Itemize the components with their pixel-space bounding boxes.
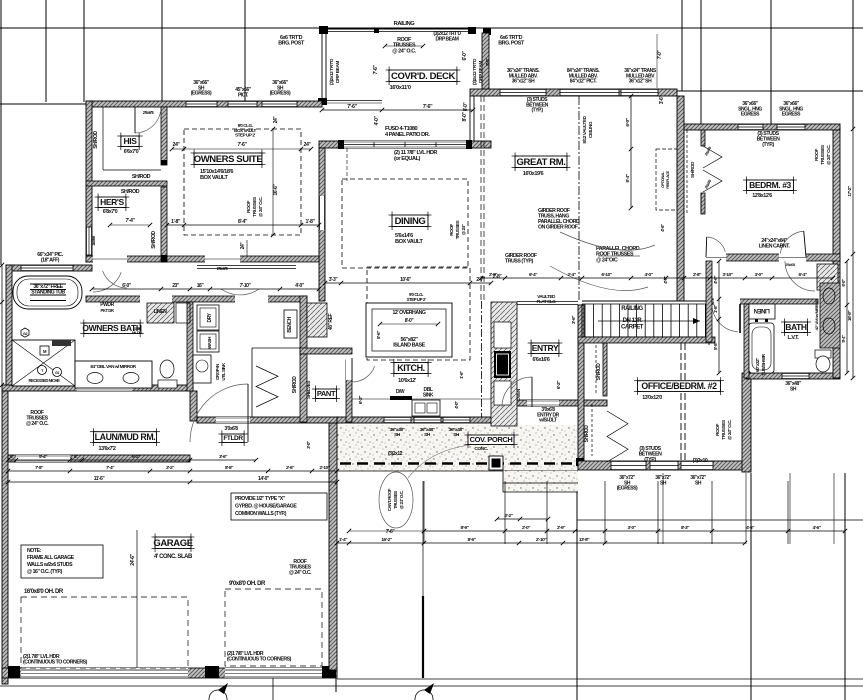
svg-text:4'-0": 4'-0" bbox=[644, 272, 652, 278]
svg-text:(EGRESS): (EGRESS) bbox=[270, 91, 291, 97]
svg-text:(3)2x12 TRT'D: (3)2x12 TRT'D bbox=[329, 58, 335, 85]
svg-text:DN 13R: DN 13R bbox=[623, 318, 643, 324]
svg-text:RECESSED NICHE: RECESSED NICHE bbox=[29, 378, 61, 383]
svg-text:2'6x6'8: 2'6x6'8 bbox=[143, 110, 155, 115]
svg-text:NOTE:: NOTE: bbox=[27, 548, 42, 554]
svg-text:6'-0": 6'-0" bbox=[122, 283, 132, 289]
svg-text:DRP BEAM: DRP BEAM bbox=[436, 36, 459, 42]
svg-text:PROVIDE 1/2" TYPE "X": PROVIDE 1/2" TYPE "X" bbox=[235, 496, 286, 502]
svg-text:SH: SH bbox=[394, 432, 401, 438]
svg-text:SH/ROD: SH/ROD bbox=[292, 376, 298, 394]
svg-text:5'-6": 5'-6" bbox=[376, 331, 382, 339]
svg-text:(or EQUAL): (or EQUAL) bbox=[394, 156, 421, 162]
svg-text:SH/ROD: SH/ROD bbox=[690, 161, 696, 178]
svg-text:SH: SH bbox=[424, 432, 431, 438]
svg-text:6'-2": 6'-2" bbox=[132, 454, 140, 460]
svg-text:2'-8": 2'-8" bbox=[489, 272, 497, 278]
svg-text:8'-0": 8'-0" bbox=[405, 318, 415, 324]
svg-text:DRP BEAM: DRP BEAM bbox=[478, 61, 484, 83]
svg-text:BRG. POST: BRG. POST bbox=[498, 41, 525, 47]
svg-text:@ 24" O.C.: @ 24" O.C. bbox=[826, 145, 832, 165]
svg-text:BRG. POST: BRG. POST bbox=[278, 41, 305, 47]
svg-text:(TYP.): (TYP.) bbox=[762, 142, 774, 148]
svg-text:TRUSSES: TRUSSES bbox=[721, 419, 727, 440]
svg-text:1'-4": 1'-4" bbox=[339, 537, 347, 543]
svg-text:4'-0": 4'-0" bbox=[374, 116, 380, 126]
svg-text:@ 24": @ 24" bbox=[461, 224, 466, 235]
svg-text:ROOF: ROOF bbox=[715, 423, 721, 436]
svg-text:4'-6": 4'-6" bbox=[713, 276, 719, 284]
svg-text:SH/ROD: SH/ROD bbox=[132, 174, 151, 180]
svg-text:6": 6" bbox=[74, 454, 78, 460]
svg-text:WALLS w/2x6 STUDS: WALLS w/2x6 STUDS bbox=[27, 562, 73, 568]
svg-text:PKT DR: PKT DR bbox=[101, 308, 114, 313]
svg-text:TRUSSES: TRUSSES bbox=[252, 196, 258, 217]
svg-text:D/W: D/W bbox=[396, 389, 405, 395]
svg-text:24": 24" bbox=[273, 116, 279, 124]
svg-text:@ 24" O.C.: @ 24" O.C. bbox=[392, 48, 416, 54]
svg-text:6'-10": 6'-10" bbox=[601, 272, 611, 278]
svg-text:GREAT RM.: GREAT RM. bbox=[517, 157, 566, 168]
svg-text:ENTRY: ENTRY bbox=[532, 343, 559, 353]
svg-text:42" VAN w/ MIRROR: 42" VAN w/ MIRROR bbox=[814, 299, 819, 330]
svg-text:2'-9": 2'-9" bbox=[557, 525, 565, 531]
svg-text:PICT.: PICT. bbox=[238, 92, 249, 98]
svg-text:3'0x6'8: 3'0x6'8 bbox=[224, 426, 238, 432]
svg-text:(CONTINUOUS TO CORNERS): (CONTINUOUS TO CORNERS) bbox=[227, 656, 292, 662]
svg-text:(18"AFF): (18"AFF) bbox=[41, 257, 60, 263]
svg-text:LINEN: LINEN bbox=[754, 307, 770, 313]
svg-text:4'-0": 4'-0" bbox=[663, 276, 668, 284]
svg-text:16'0x11'0: 16'0x11'0 bbox=[390, 85, 411, 91]
svg-text:@ 16" O.C. (TYP.): @ 16" O.C. (TYP.) bbox=[27, 569, 63, 575]
svg-text:4'-0": 4'-0" bbox=[295, 283, 305, 289]
svg-text:FTLDR: FTLDR bbox=[223, 435, 243, 442]
svg-text:6": 6" bbox=[10, 454, 14, 460]
svg-text:STEP UP 2': STEP UP 2' bbox=[407, 297, 426, 302]
svg-text:10'6x12': 10'6x12' bbox=[398, 378, 417, 384]
svg-text:OPTIONAL: OPTIONAL bbox=[661, 171, 665, 188]
svg-text:8/12 VAULTED: 8/12 VAULTED bbox=[582, 115, 588, 143]
svg-text:SH/ROD: SH/ROD bbox=[596, 363, 602, 381]
svg-text:8'-3": 8'-3" bbox=[681, 525, 689, 531]
svg-text:PANT: PANT bbox=[317, 389, 336, 398]
svg-text:GYP.BD. @ HOUSE/GARAGE: GYP.BD. @ HOUSE/GARAGE bbox=[235, 504, 297, 510]
svg-text:2'-8": 2'-8" bbox=[693, 272, 701, 278]
svg-text:TRUSSES: TRUSSES bbox=[455, 220, 460, 239]
svg-text:(3)2x10: (3)2x10 bbox=[693, 458, 708, 464]
svg-text:7'-8": 7'-8" bbox=[35, 465, 43, 471]
svg-text:3'-0": 3'-0" bbox=[627, 525, 635, 531]
svg-text:5'-4": 5'-4" bbox=[39, 454, 47, 460]
svg-text:8'-9": 8'-9" bbox=[460, 525, 468, 531]
svg-text:24": 24" bbox=[304, 142, 312, 148]
svg-text:6'-0": 6'-0" bbox=[625, 118, 631, 126]
svg-text:8'-6": 8'-6" bbox=[467, 537, 475, 543]
svg-text:RAILING: RAILING bbox=[621, 306, 643, 312]
svg-text:COVR'D. DECK: COVR'D. DECK bbox=[391, 71, 456, 82]
svg-text:8'-0": 8'-0" bbox=[485, 58, 490, 66]
svg-text:6'-2": 6'-2" bbox=[358, 396, 364, 404]
svg-text:MLDG: MLDG bbox=[132, 330, 142, 335]
svg-text:1'-6": 1'-6" bbox=[459, 371, 464, 379]
svg-text:5'-0": 5'-0" bbox=[0, 279, 2, 287]
svg-text:6'6x7'0: 6'6x7'0 bbox=[124, 149, 139, 155]
svg-text:DROP-IN: DROP-IN bbox=[215, 364, 220, 380]
svg-text:HIS: HIS bbox=[124, 136, 138, 146]
svg-text:2'6x6'8: 2'6x6'8 bbox=[785, 263, 795, 267]
svg-text:RAILING: RAILING bbox=[394, 21, 416, 27]
svg-text:CEILING: CEILING bbox=[588, 121, 594, 138]
svg-text:4 PANEL PATIO DR.: 4 PANEL PATIO DR. bbox=[385, 132, 430, 138]
svg-text:2'-6": 2'-6" bbox=[286, 465, 294, 471]
svg-text:3'-0": 3'-0" bbox=[306, 441, 311, 449]
svg-text:4'-6": 4'-6" bbox=[746, 525, 754, 531]
svg-text:8'-0": 8'-0" bbox=[462, 112, 468, 122]
svg-text:9'-4": 9'-4" bbox=[841, 335, 846, 343]
svg-text:SH: SH bbox=[695, 480, 702, 486]
svg-text:SH/ROD: SH/ROD bbox=[584, 425, 590, 443]
svg-text:2'-0": 2'-0" bbox=[522, 525, 530, 531]
svg-text:4'-6": 4'-6" bbox=[812, 525, 820, 531]
svg-text:6'-4": 6'-4" bbox=[798, 272, 806, 278]
svg-text:@ 24" O.C.: @ 24" O.C. bbox=[399, 490, 404, 509]
svg-text:16x68: 16x68 bbox=[91, 235, 96, 246]
svg-text:(TYP.): (TYP.) bbox=[644, 457, 656, 463]
svg-text:SH/ROD: SH/ROD bbox=[121, 189, 140, 195]
svg-text:11'-2": 11'-2" bbox=[0, 338, 2, 348]
svg-text:SH: SH bbox=[453, 432, 460, 438]
svg-text:FIREPLACE: FIREPLACE bbox=[666, 170, 670, 188]
svg-text:5'-8": 5'-8" bbox=[713, 342, 719, 350]
svg-text:G2: G2 bbox=[23, 332, 28, 336]
svg-text:23": 23" bbox=[172, 283, 180, 289]
svg-text:WASH: WASH bbox=[207, 336, 212, 349]
svg-text:UTIL SINK: UTIL SINK bbox=[221, 362, 226, 381]
svg-text:TRUSSES: TRUSSES bbox=[820, 144, 826, 165]
svg-text:8'-0": 8'-0" bbox=[463, 102, 469, 112]
svg-text:CARPET: CARPET bbox=[621, 324, 644, 330]
svg-text:w/SI-DLT: w/SI-DLT bbox=[538, 418, 557, 424]
svg-text:FLAT CLG: FLAT CLG bbox=[537, 299, 557, 304]
svg-text:6'-0": 6'-0" bbox=[841, 279, 846, 287]
svg-text:ROOF: ROOF bbox=[814, 148, 820, 161]
svg-text:(EGRESS): (EGRESS) bbox=[617, 486, 638, 492]
svg-text:@ 24" O.C.: @ 24" O.C. bbox=[258, 197, 264, 217]
svg-text:L.V.T.: L.V.T. bbox=[788, 335, 800, 341]
svg-text:6'-4": 6'-4" bbox=[529, 272, 537, 278]
svg-text:BOX VAULT: BOX VAULT bbox=[200, 175, 228, 181]
svg-text:3'-6": 3'-6" bbox=[571, 316, 577, 324]
svg-text:@ 24" O.C.: @ 24" O.C. bbox=[289, 570, 312, 576]
svg-text:2'-10": 2'-10" bbox=[319, 465, 329, 471]
svg-text:ON GIRDER ROOF: ON GIRDER ROOF bbox=[538, 224, 578, 230]
svg-text:ROOF: ROOF bbox=[246, 200, 252, 213]
svg-text:3'-3": 3'-3" bbox=[329, 277, 339, 283]
svg-text:4'-6": 4'-6" bbox=[660, 224, 665, 232]
svg-text:13'6x7'2: 13'6x7'2 bbox=[99, 446, 116, 452]
svg-text:6'-2": 6'-2" bbox=[556, 381, 562, 389]
svg-text:@ 24" O.C.: @ 24" O.C. bbox=[26, 421, 49, 427]
svg-text:36"x12" SH: 36"x12" SH bbox=[629, 79, 652, 85]
svg-text:CANT. ROOF: CANT. ROOF bbox=[387, 488, 392, 511]
svg-text:8'-8": 8'-8" bbox=[225, 465, 233, 471]
svg-text:60"x32": 60"x32" bbox=[755, 358, 760, 372]
svg-text:OWNERS SUITE: OWNERS SUITE bbox=[194, 154, 263, 165]
svg-text:24": 24" bbox=[240, 242, 246, 250]
svg-text:7'-0": 7'-0" bbox=[657, 50, 663, 60]
svg-text:16'0x19'6: 16'0x19'6 bbox=[523, 171, 544, 177]
svg-text:G1: G1 bbox=[55, 371, 59, 375]
svg-text:7'-6": 7'-6" bbox=[347, 104, 357, 110]
svg-text:3'-6": 3'-6" bbox=[219, 454, 227, 460]
svg-text:3'-6": 3'-6" bbox=[659, 95, 665, 105]
svg-text:BATH: BATH bbox=[785, 322, 807, 332]
svg-text:OVEN: OVEN bbox=[516, 388, 522, 401]
svg-text:8'-4": 8'-4" bbox=[238, 219, 248, 225]
svg-text:@ 24" O.C.: @ 24" O.C. bbox=[727, 420, 733, 440]
svg-text:(3)2x12 TRT'D: (3)2x12 TRT'D bbox=[472, 58, 478, 85]
svg-text:24'-6": 24'-6" bbox=[130, 553, 136, 565]
svg-text:(EGRESS): (EGRESS) bbox=[191, 91, 212, 97]
svg-text:48" REF: 48" REF bbox=[328, 314, 334, 331]
svg-text:(TYP.): (TYP.) bbox=[531, 108, 543, 114]
svg-text:3'-0": 3'-0" bbox=[754, 272, 762, 278]
svg-text:@ 24"O/C: @ 24"O/C bbox=[596, 257, 618, 263]
svg-text:SINK: SINK bbox=[423, 392, 434, 398]
svg-text:LINEN: LINEN bbox=[154, 309, 168, 315]
svg-text:2'-4": 2'-4" bbox=[567, 272, 575, 278]
svg-text:10'-6": 10'-6" bbox=[400, 277, 412, 283]
svg-text:STEP UP 2': STEP UP 2' bbox=[235, 133, 255, 138]
svg-text:OFFICE/BEDRM. #2: OFFICE/BEDRM. #2 bbox=[641, 381, 717, 391]
svg-text:4' CONC. SLAB: 4' CONC. SLAB bbox=[154, 554, 193, 560]
svg-text:COMMON WALLS (TYP.): COMMON WALLS (TYP.) bbox=[235, 511, 287, 517]
svg-text:DRP BEAM: DRP BEAM bbox=[335, 61, 341, 83]
svg-text:3'-2": 3'-2" bbox=[166, 465, 174, 471]
svg-text:11'-6": 11'-6" bbox=[94, 476, 106, 482]
svg-text:16'-6": 16'-6" bbox=[273, 183, 279, 195]
svg-text:FRAME ALL GARAGE: FRAME ALL GARAGE bbox=[27, 555, 75, 561]
svg-text:2'-10": 2'-10" bbox=[536, 537, 546, 543]
svg-text:BENCH: BENCH bbox=[287, 316, 293, 332]
svg-text:EGRESS: EGRESS bbox=[782, 112, 801, 118]
svg-text:2'-2": 2'-2" bbox=[504, 513, 512, 519]
svg-text:84" DBL VAN w/ MIRROR: 84" DBL VAN w/ MIRROR bbox=[90, 364, 136, 369]
svg-text:7'-4": 7'-4" bbox=[106, 465, 114, 471]
svg-text:DRY: DRY bbox=[207, 312, 213, 322]
svg-text:7'-6": 7'-6" bbox=[373, 65, 379, 75]
svg-text:12'8x12'6: 12'8x12'6 bbox=[752, 193, 772, 199]
svg-text:14'-0": 14'-0" bbox=[258, 476, 270, 482]
svg-text:EGRESS: EGRESS bbox=[741, 112, 760, 118]
svg-text:1'-8": 1'-8" bbox=[306, 219, 316, 225]
svg-text:16'-2": 16'-2" bbox=[381, 537, 391, 543]
svg-text:LINEN CABNT.: LINEN CABNT. bbox=[759, 243, 791, 249]
svg-text:TRUSSES: TRUSSES bbox=[393, 491, 398, 509]
svg-text:BOX VAULT: BOX VAULT bbox=[395, 239, 423, 245]
svg-text:36"x12" SH: 36"x12" SH bbox=[512, 79, 535, 85]
svg-text:7'-6": 7'-6" bbox=[423, 104, 433, 110]
svg-text:8'-4": 8'-4" bbox=[625, 174, 631, 182]
svg-text:9'0x8'0 OH. DR: 9'0x8'0 OH. DR bbox=[229, 581, 266, 587]
svg-text:7'-4": 7'-4" bbox=[126, 218, 136, 224]
svg-text:13'0x12'0: 13'0x12'0 bbox=[642, 395, 662, 401]
svg-text:ISLAND BASE: ISLAND BASE bbox=[393, 343, 425, 349]
svg-text:TUB/SHWR: TUB/SHWR bbox=[761, 353, 766, 375]
svg-text:12' OVERHANG: 12' OVERHANG bbox=[392, 310, 425, 316]
svg-text:7'-10": 7'-10" bbox=[240, 283, 252, 289]
svg-text:7'-6": 7'-6" bbox=[386, 529, 396, 535]
svg-text:6'6x16'6: 6'6x16'6 bbox=[533, 357, 550, 363]
svg-text:1'-8": 1'-8" bbox=[171, 219, 181, 225]
svg-text:GARAGE: GARAGE bbox=[153, 538, 192, 549]
svg-text:1'-8": 1'-8" bbox=[713, 305, 719, 313]
svg-text:17'-2": 17'-2" bbox=[847, 186, 853, 196]
svg-text:TRUSS (TYP.): TRUSS (TYP.) bbox=[505, 258, 534, 264]
svg-text:KITCH.: KITCH. bbox=[397, 363, 425, 373]
svg-text:16'-8": 16'-8" bbox=[847, 311, 853, 321]
svg-text:2'6x6'8: 2'6x6'8 bbox=[217, 266, 229, 271]
svg-text:SHELVES: SHELVES bbox=[306, 381, 311, 399]
svg-text:13'-8": 13'-8" bbox=[579, 537, 589, 543]
svg-text:BEDRM. #3: BEDRM. #3 bbox=[749, 180, 791, 190]
svg-text:6'8x7'0: 6'8x7'0 bbox=[103, 209, 118, 215]
svg-text:16": 16" bbox=[197, 283, 205, 289]
svg-text:DINING: DINING bbox=[395, 216, 426, 227]
svg-text:STANDING TUB: STANDING TUB bbox=[31, 289, 65, 295]
svg-text:7'-6": 7'-6" bbox=[238, 142, 248, 148]
svg-text:SH/ROD: SH/ROD bbox=[93, 131, 99, 149]
svg-text:(3)2x12: (3)2x12 bbox=[388, 451, 403, 457]
svg-text:84"x12" PICT.: 84"x12" PICT. bbox=[570, 79, 597, 85]
svg-text:SH: SH bbox=[660, 480, 667, 486]
svg-text:SH: SH bbox=[790, 386, 797, 392]
svg-text:CONC.: CONC. bbox=[474, 446, 487, 452]
svg-text:LAUN/MUD RM.: LAUN/MUD RM. bbox=[95, 432, 156, 442]
svg-text:COV. PORCH: COV. PORCH bbox=[470, 435, 513, 444]
svg-text:6'-0": 6'-0" bbox=[462, 51, 468, 61]
svg-text:(CONTINUOUS TO CORNERS): (CONTINUOUS TO CORNERS) bbox=[23, 659, 88, 665]
svg-text:16'0x8'0 OH. DR: 16'0x8'0 OH. DR bbox=[24, 589, 64, 595]
svg-text:HER'S: HER'S bbox=[100, 197, 124, 207]
svg-text:4'-0": 4'-0" bbox=[454, 401, 459, 409]
svg-text:ROOF: ROOF bbox=[449, 224, 454, 236]
svg-text:SH/ROD: SH/ROD bbox=[151, 231, 157, 249]
svg-text:3'-10": 3'-10" bbox=[722, 272, 732, 278]
